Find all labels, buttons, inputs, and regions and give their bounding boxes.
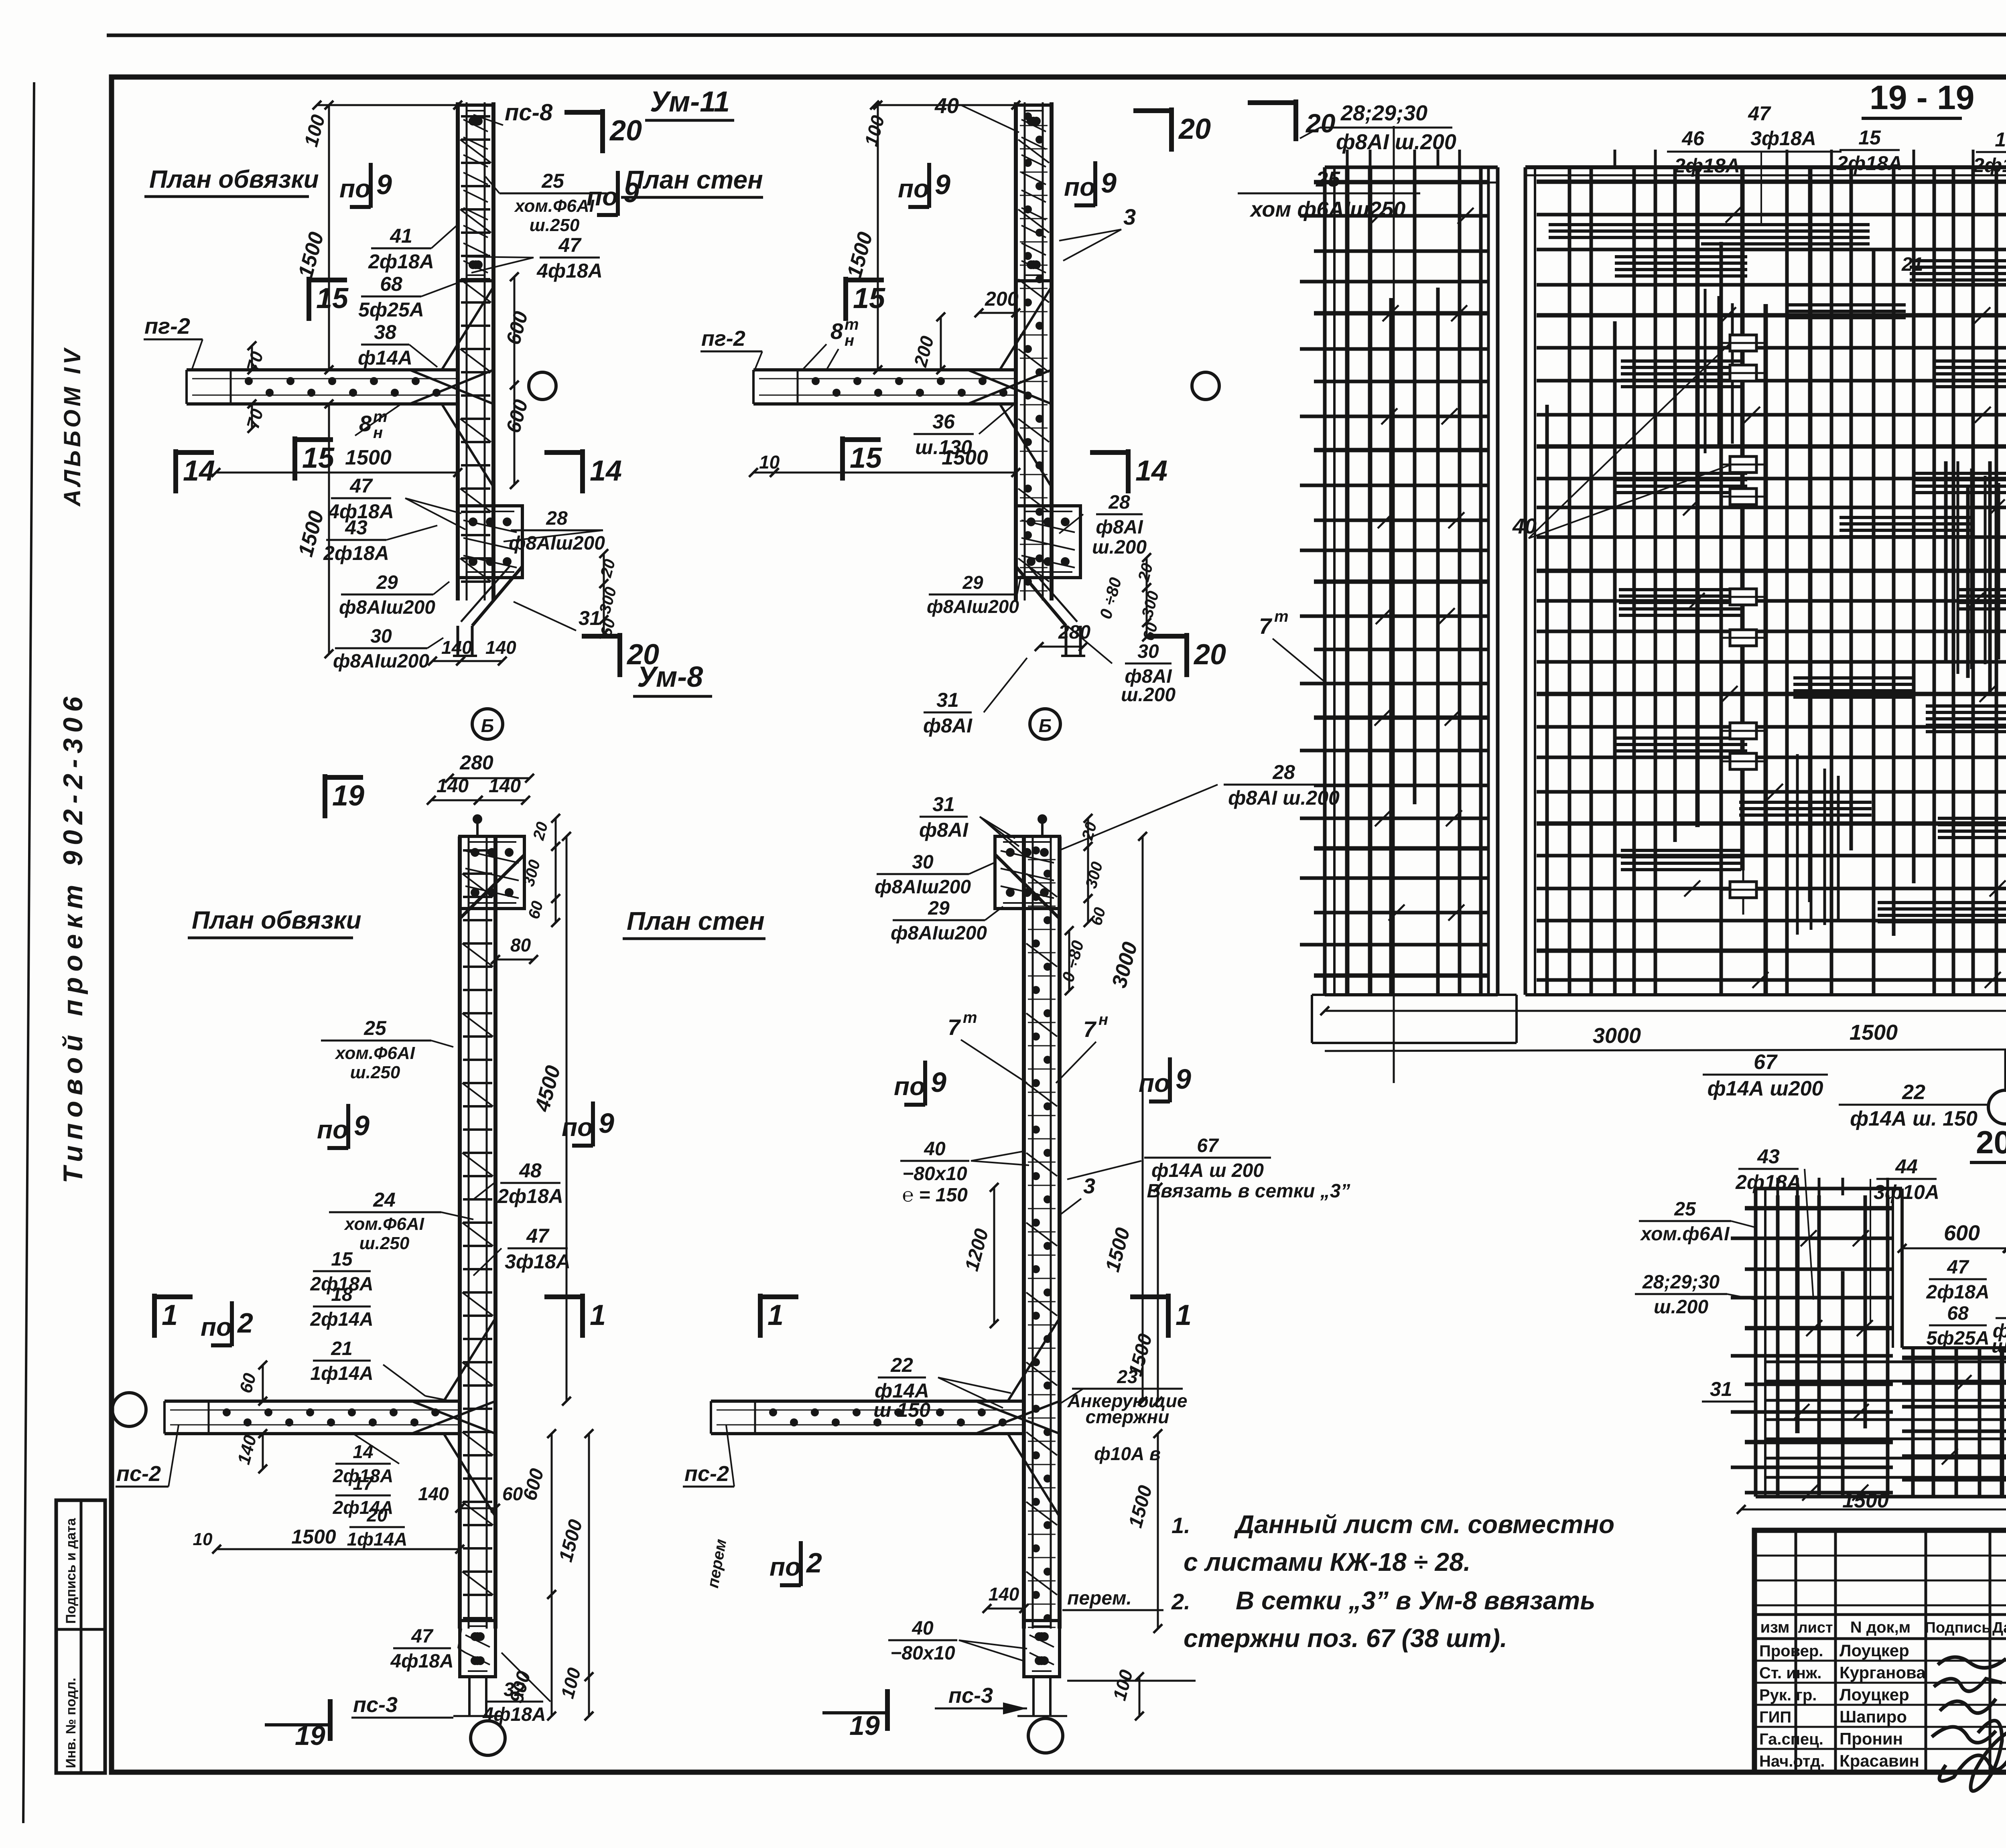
svg-text:Рук. гр.: Рук. гр.: [1759, 1686, 1817, 1704]
svg-text:1ф14А: 1ф14А: [347, 1529, 408, 1550]
19-19 mesh bottom edge: [1525, 994, 1526, 995]
svg-text:140: 140: [437, 775, 469, 797]
title block header row изм/лист/№док/подпись/дата: [1754, 1613, 2006, 1616]
svg-text:68: 68: [380, 273, 402, 295]
svg-text:Ум-11: Ум-11: [650, 86, 730, 118]
svg-text:ш.250: ш.250: [359, 1233, 410, 1253]
svg-text:АЛЬБОМ IV: АЛЬБОМ IV: [59, 346, 85, 507]
detail 3 section mark 19 bottom: [328, 1699, 333, 1741]
svg-text:31: 31: [932, 793, 955, 815]
svg-text:−80x10: −80x10: [890, 1643, 955, 1664]
svg-text:т: т: [845, 316, 859, 333]
svg-text:по: по: [1139, 1069, 1170, 1097]
scan left edge line: [23, 82, 34, 1823]
detail 1 section mark 14 left: [173, 449, 178, 493]
svg-text:ш.200: ш.200: [1654, 1296, 1708, 1318]
svg-text:30: 30: [370, 626, 392, 647]
svg-text:140: 140: [441, 637, 472, 658]
detail 3 top head panel with corbel: [460, 836, 524, 909]
svg-text:ф8АIш200: ф8АIш200: [891, 923, 987, 944]
svg-text:2: 2: [237, 1307, 253, 1339]
svg-text:ф8АIш200: ф8АIш200: [333, 651, 429, 672]
detail 4 section mark 1 left: [758, 1294, 763, 1338]
svg-text:ф8АI: ф8АI: [919, 819, 968, 841]
svg-text:47: 47: [526, 1225, 550, 1247]
svg-text:1500: 1500: [1850, 1020, 1898, 1045]
svg-text:1: 1: [590, 1299, 606, 1331]
detail 2 section mark 20 top: [1169, 108, 1174, 152]
detail 3 section mark 1 right: [580, 1294, 585, 1338]
detail 3 bottom node ПС-3: [460, 1621, 495, 1677]
detail 2 section mark 14 right: [1126, 449, 1131, 493]
svg-text:2ф14А: 2ф14А: [310, 1309, 373, 1330]
svg-text:29: 29: [376, 572, 398, 593]
svg-text:19: 19: [849, 1710, 880, 1741]
svg-text:т: т: [373, 408, 388, 426]
svg-text:Га.спец.: Га.спец.: [1759, 1730, 1823, 1748]
svg-text:н: н: [373, 424, 383, 442]
svg-text:пг-2: пг-2: [144, 313, 190, 339]
svg-text:Ум-8: Ум-8: [637, 661, 703, 693]
svg-text:18: 18: [331, 1284, 353, 1305]
svg-text:9: 9: [931, 1067, 946, 1098]
svg-text:Подпись: Подпись: [1925, 1619, 1991, 1636]
title block left columns: [1795, 1530, 1797, 1772]
svg-text:хом.Ф6АI: хом.Ф6АI: [335, 1043, 415, 1063]
svg-text:пс-3: пс-3: [948, 1684, 993, 1708]
svg-text:хом ф6АIш250: хом ф6АIш250: [1249, 197, 1406, 221]
svg-text:пс-3: пс-3: [353, 1693, 398, 1717]
svg-text:9: 9: [935, 169, 950, 200]
detail 3 label ПС-2 + node circle: [112, 1393, 146, 1426]
svg-text:9: 9: [376, 169, 392, 200]
detail 1 slab-wall junction braces: [410, 370, 493, 404]
19-19 left block long leader line: [1393, 126, 1395, 1083]
svg-text:80: 80: [510, 935, 531, 955]
20-20 left leg mesh: [1754, 1189, 1758, 1497]
svg-text:ш.200: ш.200: [1121, 684, 1176, 706]
svg-text:21: 21: [1901, 254, 1923, 275]
detail 1 top head panel ПС-8: [458, 105, 493, 281]
svg-text:1ф14А: 1ф14А: [310, 1363, 373, 1384]
svg-text:по: по: [894, 1072, 925, 1101]
svg-text:т: т: [1274, 608, 1289, 625]
svg-text:47: 47: [558, 234, 582, 256]
detail 1 section mark 15 lower: [292, 436, 297, 481]
svg-text:хом.ф6АI: хом.ф6АI: [1640, 1223, 1730, 1245]
detail 2 slab ПГ-2: [753, 368, 1016, 371]
svg-text:ф8АIш200: ф8АIш200: [875, 876, 971, 898]
detail 4 slab ПС-2: [711, 1400, 1024, 1403]
svg-text:Ст. инж.: Ст. инж.: [1759, 1664, 1821, 1682]
svg-text:47: 47: [411, 1626, 434, 1647]
detail 1 section mark 20 top: [600, 109, 605, 153]
19-19 bottom node circle: [1988, 1090, 2006, 1124]
svg-text:1.: 1.: [1172, 1513, 1190, 1538]
svg-text:140: 140: [485, 637, 516, 658]
svg-text:3000: 3000: [1593, 1024, 1641, 1048]
scan top trim line: [107, 34, 2006, 35]
detail 4 wall strip: [1022, 836, 1026, 1629]
svg-text:15: 15: [1858, 126, 1881, 149]
title block outline: [1754, 1530, 2006, 1772]
svg-text:68: 68: [1947, 1303, 1969, 1324]
svg-text:28;29;30: 28;29;30: [1340, 101, 1427, 125]
svg-text:46: 46: [1681, 127, 1705, 150]
svg-text:31: 31: [936, 689, 959, 711]
svg-text:28: 28: [1108, 492, 1130, 513]
svg-text:21: 21: [331, 1338, 352, 1359]
svg-text:1500: 1500: [291, 1525, 336, 1548]
svg-text:хом.Ф6АI: хом.Ф6АI: [514, 196, 595, 216]
svg-text:2ф18А: 2ф18А: [1836, 152, 1902, 174]
svg-text:2: 2: [806, 1547, 822, 1578]
19-19 middle vertical bar bundle: [1944, 461, 1948, 662]
svg-text:20: 20: [609, 115, 642, 147]
svg-text:32: 32: [504, 1679, 525, 1700]
19-19 left mesh block: [1323, 167, 1327, 995]
detail 2 section mark 20 bottom: [1184, 633, 1189, 677]
svg-text:19: 19: [295, 1720, 325, 1751]
svg-text:пг-2: пг-2: [701, 327, 745, 351]
svg-text:1500: 1500: [942, 446, 988, 469]
svg-text:ф14А ш200: ф14А ш200: [1708, 1077, 1823, 1100]
svg-text:2ф18А: 2ф18А: [368, 250, 434, 273]
detail 3 section mark 1 left: [152, 1294, 157, 1338]
detail 4 junction braces: [976, 1401, 1060, 1434]
svg-text:ш 150: ш 150: [873, 1399, 930, 1421]
svg-text:ф10А в: ф10А в: [1094, 1443, 1161, 1464]
svg-text:47: 47: [1748, 102, 1771, 125]
title block signature rows: [1754, 1660, 2006, 1662]
svg-text:30: 30: [1137, 641, 1159, 662]
svg-text:1500: 1500: [1842, 1489, 1889, 1512]
svg-text:2ф14А: 2ф14А: [1973, 154, 2006, 176]
detail 2 wall strip: [1014, 102, 1018, 600]
svg-text:Данный лист см. совместно: Данный лист см. совместно: [1234, 1510, 1614, 1539]
svg-text:140: 140: [489, 775, 521, 797]
svg-text:9: 9: [1101, 167, 1117, 199]
svg-text:28;29;30: 28;29;30: [1642, 1272, 1720, 1293]
svg-text:9: 9: [599, 1108, 614, 1139]
svg-text:47: 47: [1947, 1257, 1969, 1278]
svg-text:30: 30: [912, 852, 934, 873]
svg-text:5ф25А: 5ф25А: [358, 298, 424, 321]
svg-text:43: 43: [1757, 1145, 1780, 1168]
svg-text:Шапиро: Шапиро: [1840, 1707, 1907, 1726]
svg-text:15: 15: [850, 442, 882, 474]
svg-text:20: 20: [1178, 113, 1211, 145]
svg-text:Курганова: Курганова: [1840, 1663, 1926, 1682]
detail 4 section mark 19 bottom: [885, 1689, 890, 1731]
svg-text:Б: Б: [481, 715, 494, 736]
svg-text:N док,м: N док,м: [1850, 1619, 1911, 1636]
svg-text:н: н: [1098, 1011, 1108, 1028]
svg-text:ш.250: ш.250: [530, 215, 580, 235]
detail 1 bottom head panel: [458, 506, 522, 578]
svg-text:9: 9: [354, 1110, 370, 1141]
svg-text:хом.Ф6АI: хом.Ф6АI: [344, 1214, 424, 1234]
svg-text:3ф10А: 3ф10А: [1874, 1181, 1939, 1203]
svg-text:Б: Б: [1039, 715, 1052, 736]
svg-text:25: 25: [1674, 1199, 1696, 1220]
svg-text:В сетки „3” в Ум-8 ввязать: В сетки „3” в Ум-8 ввязать: [1236, 1586, 1595, 1615]
detail 2 bottom corbel: [1016, 566, 1066, 626]
svg-text:1500: 1500: [345, 446, 392, 469]
svg-text:25: 25: [363, 1017, 387, 1039]
svg-text:5ф25А: 5ф25А: [1926, 1328, 1989, 1349]
detail 2 bottom head panel: [1016, 506, 1080, 578]
svg-text:ш 150: ш 150: [1992, 1336, 2006, 1357]
svg-text:31: 31: [1710, 1378, 1732, 1400]
svg-text:2ф18А: 2ф18А: [1926, 1282, 1989, 1303]
svg-text:стержни: стержни: [1086, 1406, 1169, 1427]
svg-text:20: 20: [1193, 639, 1226, 671]
svg-text:40: 40: [924, 1138, 946, 1160]
svg-text:по: по: [587, 182, 618, 211]
svg-text:План обвязки: План обвязки: [149, 166, 319, 193]
svg-text:22: 22: [1902, 1081, 1925, 1104]
svg-text:600: 600: [1944, 1221, 1980, 1245]
detail 2 section mark 15 lower: [840, 436, 845, 481]
svg-text:Лоуцкер: Лоуцкер: [1840, 1641, 1909, 1660]
detail 1 slab ПГ-2: [187, 368, 458, 371]
svg-text:по: по: [898, 174, 929, 203]
svg-text:2ф18А: 2ф18А: [323, 542, 389, 564]
svg-text:План стен: План стен: [625, 165, 763, 194]
19-19 left block bottom band: [1312, 994, 1517, 996]
svg-text:44: 44: [1895, 1155, 1918, 1178]
19-19 splice plate column left: [1742, 281, 1744, 915]
svg-text:20: 20: [366, 1505, 388, 1525]
svg-text:3ф18А: 3ф18А: [1750, 127, 1816, 150]
svg-text:ф8АI: ф8АI: [1096, 517, 1143, 538]
svg-text:План обвязки: План обвязки: [192, 907, 361, 934]
svg-text:по: по: [317, 1115, 348, 1144]
svg-text:Нач.отд.: Нач.отд.: [1759, 1753, 1825, 1770]
svg-text:ф14А: ф14А: [358, 347, 412, 369]
svg-text:ф8АI: ф8АI: [923, 714, 973, 737]
detail 4 bottom node ПС-3: [1024, 1621, 1060, 1677]
detail 4 section mark 1 right: [1166, 1294, 1171, 1338]
svg-text:ГИП: ГИП: [1759, 1708, 1791, 1726]
detail 1 node circle right: [529, 372, 556, 400]
svg-text:Инв. № подл.: Инв. № подл.: [63, 1678, 79, 1768]
svg-text:по: по: [770, 1552, 801, 1581]
detail 3 section mark 19 top: [323, 774, 327, 818]
svg-text:48: 48: [519, 1159, 542, 1182]
detail 2 node circle right: [1192, 372, 1219, 400]
svg-text:2ф18А: 2ф18А: [1735, 1171, 1801, 1193]
svg-text:36: 36: [932, 410, 955, 433]
bottom-left stamp table: [56, 1500, 105, 1773]
svg-text:по: по: [201, 1312, 232, 1341]
svg-text:стержни поз. 67 (38 шт).: стержни поз. 67 (38 шт).: [1184, 1624, 1507, 1653]
svg-text:9: 9: [1176, 1063, 1191, 1095]
svg-text:лист: лист: [1798, 1619, 1833, 1636]
svg-text:Ввязать в сетки „3”: Ввязать в сетки „3”: [1147, 1181, 1350, 1202]
svg-text:−80x10: −80x10: [902, 1163, 967, 1185]
svg-text:280: 280: [459, 751, 493, 774]
detail 3 wall strip: [458, 836, 462, 1629]
detail 2 top head panel: [1016, 105, 1052, 281]
svg-text:1: 1: [1176, 1299, 1192, 1331]
detail 2 node circle Б: [1030, 709, 1060, 739]
svg-text:41: 41: [390, 225, 412, 247]
svg-text:8: 8: [830, 318, 843, 344]
svg-text:7: 7: [1259, 613, 1273, 639]
svg-text:3ф18А: 3ф18А: [505, 1250, 571, 1273]
svg-text:14: 14: [1135, 455, 1167, 487]
svg-text:3: 3: [1123, 204, 1136, 229]
svg-text:пс-2: пс-2: [684, 1462, 729, 1486]
20-20 bottom dim line: [1741, 1509, 2006, 1511]
svg-text:с листами КЖ-18 ÷ 28.: с листами КЖ-18 ÷ 28.: [1184, 1548, 1470, 1576]
detail 1 section mark 14 right: [580, 449, 585, 493]
svg-text:4ф18А: 4ф18А: [390, 1651, 453, 1672]
title block signatures squiggles: [1932, 1657, 2006, 1791]
svg-text:15: 15: [316, 282, 349, 314]
svg-text:℮ = 150: ℮ = 150: [902, 1185, 968, 1206]
detail 2 section mark 15 upper: [843, 277, 848, 321]
svg-text:20 -20: 20 -20: [1976, 1124, 2006, 1160]
20-20 web long bars: [1765, 1361, 2006, 1363]
svg-text:140: 140: [418, 1483, 449, 1504]
detail 1 bottom corbel: [472, 566, 522, 626]
svg-text:Красавин: Красавин: [1840, 1751, 1919, 1770]
svg-text:14: 14: [590, 455, 622, 487]
detail 3 slab ПС-2: [164, 1400, 460, 1403]
svg-text:28: 28: [546, 508, 568, 529]
svg-text:План стен: План стен: [627, 907, 765, 935]
svg-text:15: 15: [853, 282, 885, 314]
svg-text:25: 25: [541, 170, 564, 192]
detail 4 top head panel with corbel: [995, 836, 1060, 909]
svg-text:ф14А ш. 150: ф14А ш. 150: [1850, 1107, 1978, 1130]
svg-text:Пронин: Пронин: [1840, 1729, 1903, 1748]
detail 1 section mark 15 upper: [307, 277, 311, 321]
detail 1 wall Ум-11 plan strip: [456, 102, 460, 600]
svg-text:47: 47: [349, 475, 373, 497]
svg-text:19: 19: [332, 780, 364, 812]
19-19 lap splice bundles: [1615, 255, 1747, 258]
svg-text:ф8АIш200: ф8АIш200: [339, 597, 435, 618]
svg-text:25: 25: [1316, 167, 1340, 191]
19-19 main mesh block: [1524, 167, 1527, 995]
svg-text:н: н: [845, 332, 854, 349]
svg-text:3: 3: [1083, 1174, 1095, 1198]
section mark 20 left of 19-19: [1293, 99, 1298, 141]
svg-text:ф8АI ш.200: ф8АI ш.200: [1228, 787, 1340, 809]
svg-text:Типовой проект 902-2-306: Типовой проект 902-2-306: [58, 691, 88, 1183]
svg-text:14: 14: [183, 455, 215, 487]
detail 4 bottom node circle: [1028, 1718, 1063, 1753]
svg-text:38: 38: [374, 321, 396, 343]
svg-text:2ф18А: 2ф18А: [497, 1185, 563, 1207]
svg-text:по: по: [339, 174, 371, 203]
svg-text:24: 24: [373, 1189, 396, 1211]
svg-text:29: 29: [928, 898, 950, 919]
svg-text:ф14А ш 200: ф14А ш 200: [1151, 1160, 1264, 1181]
detail 3 junction braces: [412, 1401, 495, 1434]
svg-text:29: 29: [962, 572, 983, 593]
svg-text:ш.200: ш.200: [1092, 537, 1147, 558]
svg-text:Подпись и дата: Подпись и дата: [63, 1517, 79, 1624]
svg-text:Дата: Дата: [1992, 1619, 2006, 1636]
svg-text:Провер.: Провер.: [1759, 1642, 1823, 1660]
svg-text:140: 140: [989, 1584, 1019, 1605]
svg-text:40: 40: [912, 1618, 934, 1639]
svg-text:19 - 19: 19 - 19: [1870, 79, 1975, 116]
detail 1 section mark 20 bottom: [617, 633, 622, 677]
svg-text:17: 17: [353, 1473, 374, 1494]
svg-text:1: 1: [767, 1299, 784, 1331]
svg-text:43: 43: [345, 516, 367, 539]
svg-text:67: 67: [1754, 1051, 1778, 1074]
svg-text:ф8АIш200: ф8АIш200: [927, 596, 1019, 617]
svg-text:ш.250: ш.250: [350, 1063, 400, 1082]
svg-text:пс-2: пс-2: [116, 1462, 161, 1486]
19-19 bottom dim line: [1325, 1010, 2006, 1012]
detail 1 node circle Б: [472, 709, 503, 739]
svg-text:15: 15: [331, 1249, 353, 1270]
svg-text:7: 7: [1083, 1016, 1097, 1042]
svg-text:изм: изм: [1760, 1619, 1789, 1636]
svg-text:2ф18А: 2ф18А: [1674, 154, 1740, 177]
svg-text:2.: 2.: [1171, 1589, 1190, 1614]
svg-text:4ф18А: 4ф18А: [536, 260, 603, 282]
svg-text:перем.: перем.: [1067, 1588, 1132, 1609]
svg-text:67: 67: [1197, 1135, 1219, 1156]
20-20 web mesh: [1902, 1346, 2006, 1349]
svg-text:22: 22: [890, 1354, 913, 1376]
svg-text:7: 7: [948, 1014, 961, 1040]
svg-text:т: т: [963, 1009, 977, 1026]
svg-text:по: по: [1064, 172, 1095, 201]
svg-text:Лоуцкер: Лоуцкер: [1840, 1685, 1909, 1704]
svg-text:10: 10: [193, 1530, 213, 1549]
detail 2 junction braces: [968, 370, 1052, 404]
svg-text:18: 18: [1995, 128, 2006, 151]
svg-text:200: 200: [985, 288, 1019, 310]
detail 3 bottom node circle: [471, 1721, 505, 1755]
19-19 middle dense vertical bar clusters: [1957, 461, 1959, 674]
svg-text:28: 28: [1272, 761, 1295, 783]
svg-text:пс-8: пс-8: [505, 99, 553, 126]
svg-text:1: 1: [162, 1299, 178, 1331]
